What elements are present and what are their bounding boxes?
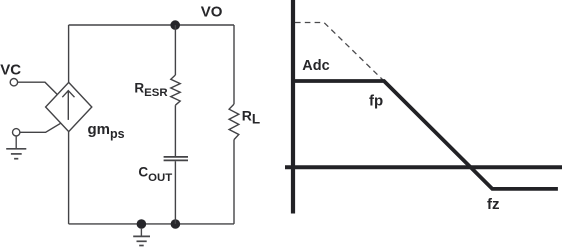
svg-text:VO: VO (201, 4, 223, 21)
node junction dot at COUT branch bottom (171, 219, 181, 229)
svg-text:COUT: COUT (138, 165, 172, 184)
wire COUT to bottom rail (174, 161, 176, 224)
capacitor COUT plates (164, 157, 188, 161)
wire middle branch top (174, 25, 176, 75)
svg-text:RESR: RESR (134, 81, 167, 99)
plot horizontal axis (285, 165, 562, 169)
wire top rail (69, 24, 234, 26)
ground at bottom rail (133, 228, 150, 246)
node junction dot at ground branch (137, 219, 147, 229)
svg-text:VC: VC (0, 62, 21, 79)
svg-text:gmps: gmps (88, 121, 125, 141)
plot gain curve (291, 81, 558, 189)
current source gm_ps diamond (46, 82, 92, 131)
wire RESR to COUT (174, 105, 176, 156)
wire lower terminal to diamond (20, 123, 61, 132)
svg-text:fp: fp (369, 93, 383, 110)
plot dashed asymptote (295, 23, 384, 82)
wire VC to diamond (18, 82, 58, 94)
terminal lower control circle (13, 129, 20, 136)
svg-text:Adc: Adc (302, 58, 329, 74)
ground at lower control terminal (6, 136, 26, 159)
svg-text:RL: RL (242, 108, 260, 127)
resistor RESR (171, 75, 180, 105)
resistor RL (229, 104, 239, 140)
svg-text:fz: fz (487, 196, 500, 213)
wire bottom rail (69, 223, 234, 225)
node VO junction dot (170, 20, 180, 30)
plot vertical axis (291, 0, 295, 214)
arrow inside gm_ps (62, 91, 74, 120)
wire left branch lower (68, 132, 70, 224)
wire left branch upper (68, 25, 70, 82)
terminal VC circle (10, 79, 17, 86)
wire right branch lower (233, 140, 235, 224)
wire right branch upper (233, 25, 235, 104)
